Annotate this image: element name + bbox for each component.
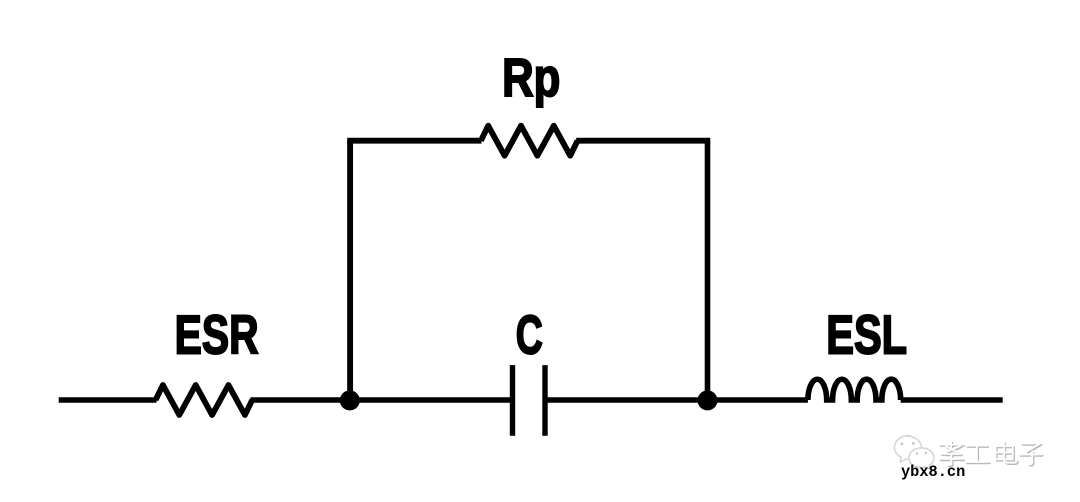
wire: right lead (901, 397, 1003, 402)
svg-text:ESR: ESR (175, 305, 259, 366)
svg-text:Rp: Rp (502, 49, 560, 108)
wire: left branch vertical (347, 141, 353, 400)
watermark CJK white emboss layer (939, 441, 1041, 464)
watermark wechat logo (894, 436, 934, 470)
svg-text:ESL: ESL (826, 305, 907, 366)
svg-text:ybx8.cn: ybx8.cn (901, 463, 965, 481)
node A (left junction) (340, 390, 360, 410)
resistor ESR (156, 385, 253, 415)
wire: right branch vertical (705, 141, 711, 400)
svg-text:C: C (516, 304, 543, 365)
wire: capacitor to inductor (545, 397, 808, 402)
watermark CJK gray layer (941, 443, 1043, 466)
capacitor C left plate (510, 365, 515, 436)
wire: top right segment (576, 138, 710, 144)
inductor ESL (808, 379, 901, 400)
wire: top left segment (347, 138, 481, 144)
resistor Rp (481, 126, 578, 156)
capacitor C right plate (542, 365, 547, 436)
node B (right junction) (698, 390, 718, 410)
wire: ESR to capacitor (250, 397, 512, 402)
wire: main left lead (59, 397, 157, 402)
